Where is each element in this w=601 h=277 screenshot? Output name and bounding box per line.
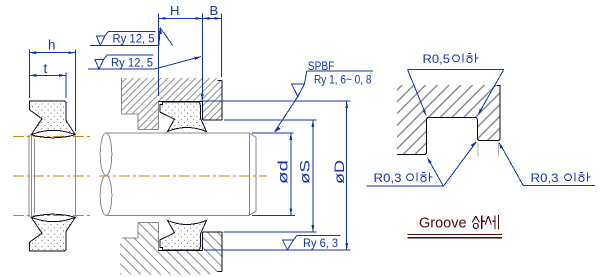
hangul se [485,216,491,225]
svg-text:R0,3: R0,3 [531,171,559,185]
callout R0,3 left: underline and leaders [366,142,476,186]
installed seal upper: profile with stipple fill [160,102,207,132]
dimension H: dimension line [159,17,203,19]
dimension lines od, oS, oD [290,133,292,216]
assembly: shaft centerline [99,175,267,177]
seal left view: silhouette edge lines [29,135,75,218]
dimension h: arrowheads [29,51,75,77]
shaft with break line at left end [100,133,256,215]
surface symbol Ry 12,5 upper [90,28,173,46]
groove upper: floor and right land outline [159,81,222,120]
surface symbol Ry 12,5 lower: leader to groove wall [154,57,201,70]
seal cross-section left view: centerline top lip [13,137,91,216]
svg-text:H: H [170,3,179,18]
svg-text:Ry 6, 3: Ry 6, 3 [303,236,338,250]
seal left view: top cross-section profile with stipple fill [29,101,75,135]
housing lower block: gray step outline [122,223,159,251]
hangul sang [472,216,479,222]
SPBF leader to shaft surface [275,96,298,131]
svg-text:ød: ød [276,160,291,184]
groove detail: hatched housing section [397,85,500,155]
dimension H and B: extension lines [159,14,222,101]
housing lower block: hatched section [120,223,222,275]
dimension h: extension and dimension lines [29,50,75,132]
installed seal lower: profile with stipple fill [160,220,207,250]
dimension t: extension and dimension lines [65,73,67,99]
svg-text:Ry 1, 6~ 0, 8: Ry 1, 6~ 0, 8 [314,73,372,87]
dimension t: arrowheads [29,74,36,77]
housing upper block: gray step outline [122,78,159,129]
seal left view: bottom lip edge arc [31,214,75,217]
svg-text:Groove: Groove [419,216,467,232]
seal left view: main axis centerline [13,175,91,177]
shaft right end chamfer edge [248,133,250,215]
dimension H and B: arrowheads [159,17,222,101]
svg-text:Ry 12, 5: Ry 12, 5 [113,32,155,46]
housing upper block: hatched section [122,78,222,129]
groove detail: seal reference stubs [478,143,499,157]
svg-text:R0,3: R0,3 [374,171,402,185]
groove upper: left wall [158,101,160,129]
callout R0,3 right: underline and leader [500,144,595,186]
diameter dimensions: extension lines [202,101,350,250]
seal left view: centerline bottom lip [13,214,91,216]
svg-text:øD: øD [332,160,347,184]
svg-text:t: t [44,61,48,76]
svg-text:øS: øS [298,160,313,184]
surface symbol Ry 12,5 upper: wall arrow [159,28,160,46]
leader arrow at groove corner pointing down [201,94,204,101]
surface symbol Ry 12,5 lower [88,55,201,69]
svg-text:B: B [210,3,219,18]
callout R0,5: underline and leaders [408,70,504,115]
shaft break loops [100,133,112,175]
surface symbol Ry 6,3 on lower groove floor [283,235,341,250]
seal left view: bottom cross-section profile with stipple fill [29,217,75,251]
diameter dimensions: arrowheads [290,101,349,250]
svg-text:R0,5: R0,5 [423,52,451,66]
groove lower: left wall [158,223,160,251]
groove detail: outline [397,86,500,155]
seal left view: top lip edge arc [31,135,75,138]
svg-text:h: h [48,38,56,53]
svg-text:Ry 12, 5: Ry 12, 5 [111,55,153,69]
groove lower: floor and right land outline [159,232,222,271]
dimension B: dimension line [202,17,221,19]
title underline double [407,235,502,238]
